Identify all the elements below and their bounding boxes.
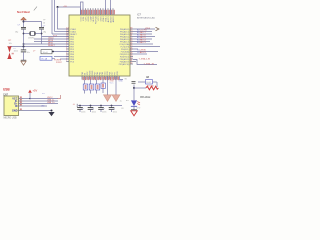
svg-text:+5V: +5V — [33, 89, 38, 93]
svg-text:5V: 5V — [125, 79, 128, 81]
svg-text:A/INT1: A/INT1 — [140, 51, 147, 54]
svg-text:18p: 18p — [15, 31, 18, 33]
svg-text:USB_D+: USB_D+ — [47, 102, 56, 104]
svg-text:C?: C? — [43, 25, 45, 27]
svg-text:32: 32 — [130, 62, 132, 64]
svg-text:10u: 10u — [27, 52, 30, 54]
svg-text:C?: C? — [18, 24, 20, 26]
svg-text:LED: LED — [137, 108, 141, 110]
svg-text:C?: C? — [102, 109, 104, 111]
svg-text:100n: 100n — [92, 111, 96, 113]
svg-text:100n: 100n — [14, 51, 18, 53]
svg-text:BLM: BLM — [147, 82, 152, 84]
svg-text:VCC: VCC — [110, 83, 115, 85]
svg-text:1: 1 — [66, 60, 67, 62]
svg-text:PCINT: PCINT — [56, 62, 63, 64]
svg-text:XX ohm: XX ohm — [139, 95, 151, 99]
svg-text:T_XTAL2_IN: T_XTAL2_IN — [139, 57, 151, 60]
svg-text:C?: C? — [81, 109, 83, 111]
svg-text:UID: UID — [41, 105, 45, 107]
svg-text:100n: 100n — [102, 111, 106, 113]
svg-text:L?: L? — [33, 50, 36, 52]
svg-text:IC?: IC? — [137, 13, 142, 17]
svg-text:D?: D? — [126, 100, 129, 102]
svg-text:GND: GND — [12, 110, 18, 113]
svg-text:ID: ID — [15, 105, 18, 108]
svg-text:AREF0: AREF0 — [112, 16, 115, 22]
svg-text:PC6: PC6 — [70, 61, 74, 63]
svg-text:MICRO USB: MICRO USB — [4, 118, 17, 120]
svg-text:16MHz: 16MHz — [28, 38, 34, 40]
svg-text:ATMEGA32U4-AU: ATMEGA32U4-AU — [137, 17, 155, 20]
svg-text:Not Fitted: Not Fitted — [17, 10, 30, 14]
svg-text:PD7(ADC10): PD7(ADC10) — [119, 63, 130, 66]
svg-text:GND: GND — [117, 71, 119, 76]
svg-text:+5V: +5V — [63, 6, 67, 8]
svg-text:R?: R? — [9, 40, 13, 42]
svg-text:USB: USB — [3, 88, 10, 92]
svg-text:100n: 100n — [113, 111, 117, 113]
svg-text:C?: C? — [92, 109, 94, 111]
svg-text:GND: GND — [119, 81, 124, 83]
svg-text:D+: D+ — [42, 93, 46, 95]
svg-text:100n: 100n — [81, 111, 85, 113]
svg-text:C8: C8 — [121, 108, 123, 110]
svg-text:10k: 10k — [9, 43, 12, 45]
svg-text:R? 330: R? 330 — [147, 85, 155, 87]
svg-text:/ADC1: /ADC1 — [140, 41, 147, 44]
svg-text:10uH: 10uH — [43, 52, 48, 54]
svg-text:TP: TP — [43, 20, 46, 22]
svg-text:+5: +5 — [73, 104, 76, 106]
svg-text:18p: 18p — [43, 31, 46, 33]
svg-text:10: 10 — [43, 23, 45, 25]
svg-text:AB: AB — [146, 76, 150, 79]
svg-text:1u: 1u — [120, 100, 122, 102]
svg-text:T_XTAL_IN: T_XTAL_IN — [144, 63, 155, 66]
svg-text:OC.1A: OC.1A — [41, 57, 48, 60]
svg-text:C?: C? — [113, 109, 115, 111]
